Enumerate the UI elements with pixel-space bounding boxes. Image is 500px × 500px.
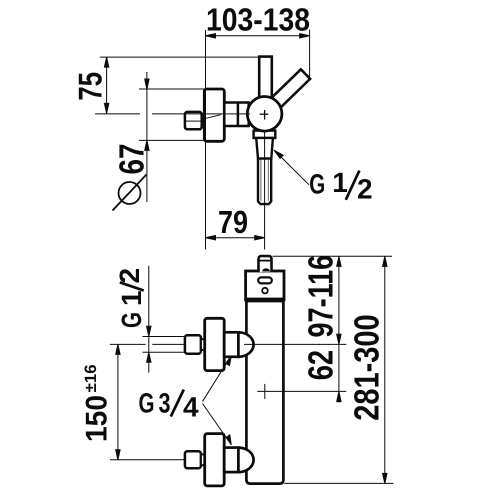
upper escutcheon flange [205, 318, 225, 370]
shower outlet cross [257, 384, 346, 399]
dimension dia67 line with outside arrows [145, 72, 149, 202]
svg-text:62: 62 [302, 350, 341, 380]
ball joint [247, 97, 282, 132]
svg-text:97-116: 97-116 [302, 255, 341, 338]
upper neck [201, 339, 205, 350]
valve body (side) [224, 103, 248, 127]
wire centerline horizontal axis top view [95, 113, 140, 115]
dimension 103-138 extension left [205, 30, 207, 250]
outlet thread taper [256, 138, 273, 159]
top extension line [273, 255, 392, 257]
connector diagonal leader [202, 115, 221, 120]
dimension 281-300 line [383, 256, 387, 483]
svg-text:±16: ±16 [82, 364, 100, 392]
G 1/2 leader line with outside arrows [147, 266, 151, 373]
mixer body column [246, 301, 283, 484]
head slot [258, 277, 272, 283]
dimension dia67 extension top [139, 88, 205, 90]
lower neck [201, 455, 205, 466]
dimension 103-138 extension right [309, 30, 311, 78]
connector inner line [186, 120, 202, 122]
dimension 103-138 line [206, 34, 310, 38]
diameter symbol [113, 175, 147, 211]
dimension dia67 extension bottom [139, 139, 205, 141]
wire axis centerline over parts [152, 113, 250, 115]
svg-text:G: G [139, 387, 155, 418]
svg-text:281-300: 281-300 [347, 314, 386, 421]
lower escutcheon flange [205, 434, 225, 486]
upper union nut [185, 335, 201, 354]
dimension 75 extension top [100, 56, 259, 58]
lower supply centerline [110, 459, 185, 461]
svg-text:1: 1 [332, 167, 348, 198]
label G 1/2 bottom (rotated) [114, 268, 147, 328]
svg-text:2: 2 [114, 268, 145, 284]
outlet collar [254, 131, 276, 138]
dimension 97-116 line [337, 256, 341, 402]
nipple base arc [262, 268, 270, 271]
G 3/4 leader upper [203, 356, 232, 402]
dimension 79 line [206, 236, 265, 240]
G 3/4 leader lower [203, 404, 232, 445]
svg-text:4: 4 [183, 392, 199, 423]
label G 3/4 [139, 387, 200, 422]
lower G3/4 step [224, 448, 238, 473]
bottom extension line [284, 482, 393, 484]
svg-text:75: 75 [72, 72, 109, 101]
svg-text:G: G [116, 312, 147, 328]
escutcheon flange (side) [204, 89, 224, 141]
wall connector nut (side) [185, 112, 202, 129]
upper valve centerline [110, 343, 346, 345]
svg-text:150: 150 [80, 395, 113, 442]
svg-text:G: G [309, 169, 325, 200]
svg-text:79: 79 [218, 204, 248, 240]
head block [246, 271, 284, 300]
label G 1/2 top view [309, 167, 372, 205]
upper G3/4 step [224, 332, 238, 357]
ball crosshair [260, 110, 269, 120]
outlet tube thread lines [261, 160, 268, 201]
handle lever vertical [259, 57, 272, 105]
dimension 75 line [104, 57, 108, 113]
head junction band [245, 298, 285, 302]
nipple cap line [259, 260, 272, 262]
label G 1/2 top view leader [274, 150, 309, 185]
svg-text:1: 1 [116, 290, 147, 306]
lower D-piece [238, 448, 253, 473]
spout centerline redraw [264, 131, 266, 250]
handle lever diagonal [270, 69, 310, 109]
dimension 150 line [116, 344, 120, 459]
svg-text:3: 3 [159, 387, 171, 418]
lower union nut [185, 451, 201, 468]
upper supply pipe [143, 337, 186, 353]
upper D-piece [238, 332, 253, 357]
svg-text:103-138: 103-138 [206, 1, 310, 37]
svg-text:67: 67 [113, 144, 152, 175]
top nipple [259, 256, 272, 272]
svg-text:2: 2 [357, 174, 373, 205]
head screw [262, 288, 268, 294]
outlet tube [258, 159, 271, 205]
